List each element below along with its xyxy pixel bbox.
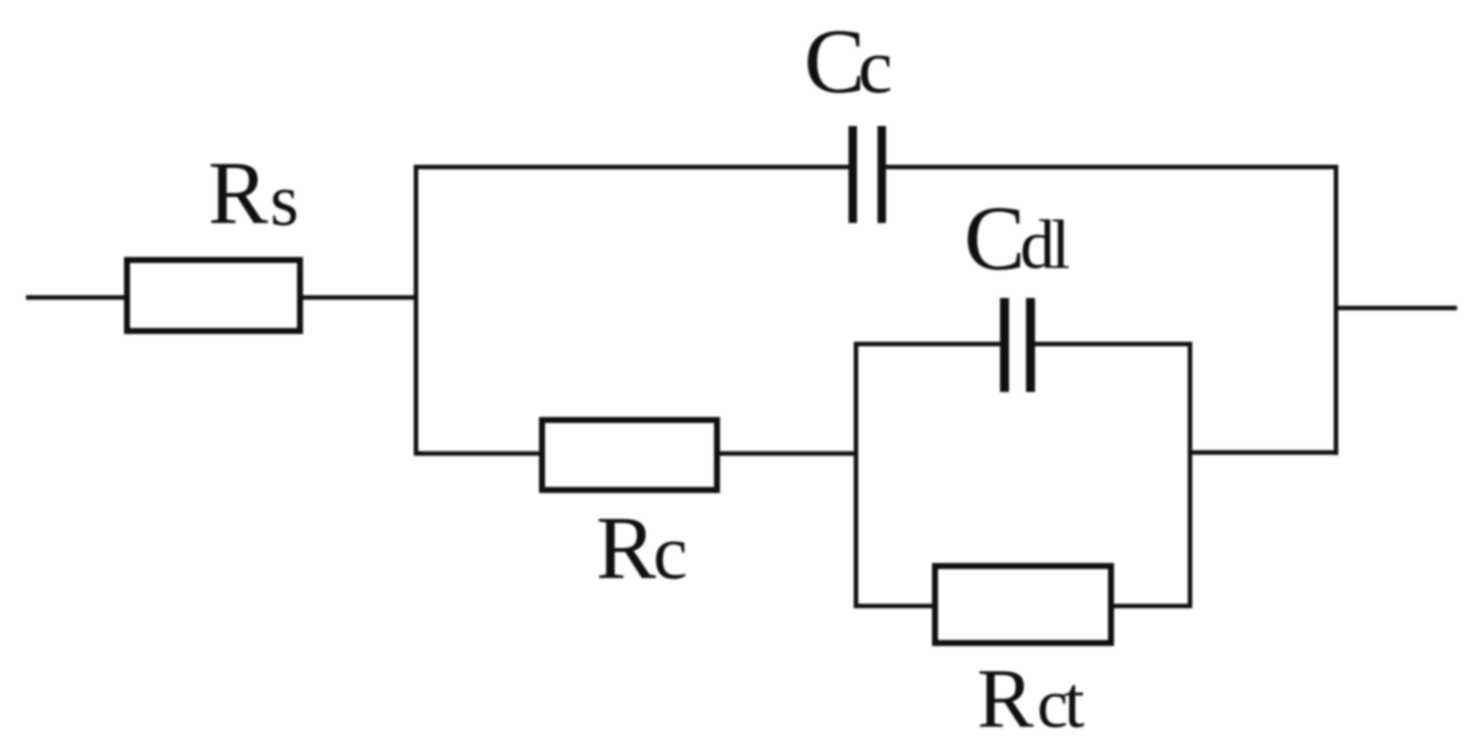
svg-text:t: t (1064, 662, 1085, 744)
svg-text:s: s (270, 160, 299, 242)
svg-text:C: C (804, 10, 865, 112)
svg-text:R: R (208, 144, 268, 243)
svg-text:l: l (1051, 207, 1070, 284)
svg-text:R: R (596, 499, 656, 598)
svg-text:C: C (964, 187, 1025, 289)
svg-text:R: R (977, 652, 1034, 746)
svg-text:c: c (858, 22, 893, 109)
svg-text:d: d (1020, 207, 1055, 284)
svg-text:c: c (653, 508, 688, 595)
